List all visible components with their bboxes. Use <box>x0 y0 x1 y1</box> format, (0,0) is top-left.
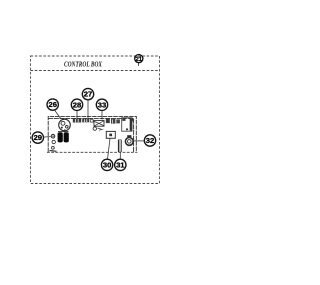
leader line 26 <box>55 110 62 119</box>
svg-text:29: 29 <box>34 133 42 142</box>
small relay block (callout 33) <box>82 119 89 123</box>
callout 27 <box>82 88 93 99</box>
callout 33 <box>96 99 107 110</box>
run capacitor (black, twin lobes) <box>58 132 69 143</box>
leader line 32 <box>134 140 144 142</box>
leader line 33 <box>101 111 103 120</box>
control box outline (outer lid edge) <box>48 116 136 152</box>
svg-text:32: 32 <box>146 136 154 145</box>
callout 28 <box>71 99 82 110</box>
fuse block cluster <box>106 118 120 123</box>
leader line 30 <box>108 139 111 160</box>
terminal block (callout 31) <box>118 140 122 152</box>
fan motor (round component, callout 26) <box>59 119 71 131</box>
title bar divider <box>31 70 160 72</box>
leader line 29 <box>44 136 51 138</box>
leader line 31 <box>119 147 121 159</box>
transformer (callout 27) <box>93 120 104 130</box>
callout 32 <box>144 135 155 146</box>
callout 30 <box>101 159 112 170</box>
svg-text:28: 28 <box>73 100 81 109</box>
svg-text:33: 33 <box>98 100 106 109</box>
leader line 27 <box>87 100 89 122</box>
svg-text:CONTROL BOX: CONTROL BOX <box>64 61 102 69</box>
svg-text:21: 21 <box>135 57 142 63</box>
leader stub 21 <box>138 63 140 66</box>
control box bottom edge (dashed) <box>47 151 137 153</box>
switch box (callout 30) <box>106 131 115 138</box>
relay (top right rectangle) <box>122 118 132 131</box>
start capacitor (round, callout 32) <box>125 135 133 145</box>
callout 31 <box>115 159 126 170</box>
svg-text:26: 26 <box>48 100 56 109</box>
small part between 33 and transformer <box>90 119 93 122</box>
callout 21 <box>135 55 143 63</box>
control box inner edge <box>48 118 133 152</box>
outer dashed border <box>31 56 160 184</box>
corner tick <box>131 118 134 121</box>
callout 29 <box>32 132 43 143</box>
svg-text:27: 27 <box>84 90 92 99</box>
svg-text:31: 31 <box>116 161 125 170</box>
bottom-left mark <box>50 150 57 153</box>
terminal strip (callout 28) <box>73 119 81 123</box>
callout 26 <box>47 99 58 110</box>
svg-text:30: 30 <box>103 161 111 170</box>
left terminals (callout 29) <box>51 134 55 149</box>
leader line 28 <box>76 111 78 120</box>
